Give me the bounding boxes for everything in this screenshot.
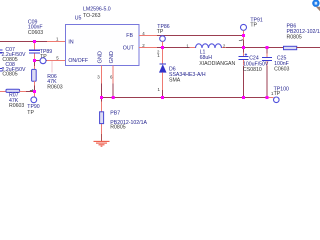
wire x34 ON/OFF to R06: [34, 61, 36, 70]
node dot OUT/TP91/C24: [242, 46, 245, 49]
wire left bottom net: [0, 91, 6, 93]
pin 5 ON/OFF stub: [47, 60, 66, 62]
svg-text:1: 1: [158, 87, 161, 92]
svg-text:TP: TP: [250, 22, 257, 28]
svg-text:R0805: R0805: [110, 124, 125, 130]
ferrite bead PB6: [284, 46, 297, 49]
capacitor C25 wires: [266, 48, 268, 98]
svg-text:GND: GND: [98, 51, 104, 63]
svg-text:OUT: OUT: [123, 46, 135, 52]
svg-text:R0603: R0603: [9, 103, 24, 109]
test point TP90 circle: [31, 97, 37, 103]
svg-text:TP: TP: [40, 54, 47, 60]
node dot bus/C24: [242, 96, 245, 99]
pin 2 OUT stub: [139, 47, 157, 49]
capacitor C24 wires: [243, 48, 245, 98]
svg-text:1: 1: [56, 37, 59, 42]
test point TP91 pin: [243, 30, 245, 47]
svg-text:C0805: C0805: [2, 72, 17, 78]
ferrite bead PB7 pins: [101, 98, 103, 142]
diode D6 symbol: [159, 64, 166, 72]
pin 1 IN stub: [47, 41, 66, 43]
svg-text:GND: GND: [109, 51, 115, 63]
svg-text:6: 6: [110, 74, 113, 79]
test point TP89 circle: [40, 58, 46, 64]
pin 4 FB stub: [139, 35, 157, 37]
capacitor C24 plus sign: [245, 53, 247, 55]
diode D6 pin 2: [162, 48, 164, 64]
svg-text:PB7: PB7: [110, 111, 120, 117]
test point TP91 circle: [241, 24, 247, 30]
ground symbol: [94, 141, 110, 146]
ferrite bead PB7 body: [100, 112, 104, 124]
test point TP86 circle: [160, 36, 166, 42]
node junction dot ON/OFF: [33, 59, 36, 62]
resistor R06: [32, 69, 37, 81]
IC GND pin 3: [101, 66, 103, 98]
svg-text:TP: TP: [274, 91, 281, 97]
svg-text:C0603: C0603: [28, 30, 43, 36]
svg-text:U5: U5: [75, 15, 82, 21]
svg-text:IN: IN: [68, 40, 73, 46]
svg-text:R0603: R0603: [47, 84, 62, 90]
capacitor C08 fragment: [0, 68, 2, 71]
test point TP90 stub: [34, 92, 36, 97]
wire PB6 to edge: [297, 47, 320, 49]
inductor L1 coil: [196, 44, 222, 48]
capacitor C24 plates: [239, 56, 249, 59]
svg-text:C0603: C0603: [274, 66, 289, 72]
test point TP86 stub: [162, 41, 164, 47]
wire input net: [0, 41, 47, 43]
svg-text:1: 1: [157, 53, 160, 58]
pin number 1 TP91 rotated: [239, 39, 243, 40]
capacitor C09 vertical wires: [34, 42, 36, 61]
wire R06 bottom: [34, 81, 36, 91]
node dot FB/TP91: [242, 34, 245, 37]
node dot bus/C25: [266, 96, 269, 99]
wire R07 to junction: [20, 91, 35, 93]
diode D6 pin 1: [162, 72, 164, 97]
svg-text:LM2596-5.0: LM2596-5.0: [83, 7, 111, 13]
test point TP100 circle: [274, 97, 280, 103]
node junction dot R06/R07/TP90: [33, 90, 36, 93]
wire OUT to L1: [157, 47, 284, 49]
svg-text:R0805: R0805: [287, 34, 302, 40]
svg-text:3: 3: [97, 74, 100, 79]
wire FB net: [157, 35, 244, 37]
IC GND pin 6: [112, 66, 114, 98]
resistor R07: [6, 89, 20, 92]
capacitor C07 fragment: [0, 50, 2, 53]
op-amp U5 LM2596 body: [66, 25, 140, 66]
capacitor C09 plates: [29, 50, 40, 53]
wire ground bus: [102, 97, 268, 99]
svg-text:TP: TP: [157, 29, 164, 35]
svg-text:TO-263: TO-263: [83, 13, 101, 19]
wire ON/OFF net: [34, 60, 47, 62]
node dot bus/GND3: [100, 96, 103, 99]
pin number 1 TP90 rotated: [30, 89, 33, 90]
svg-text:SMA: SMA: [169, 77, 181, 83]
test point TP100 stub: [267, 97, 274, 99]
cursor badge icon: [312, 0, 320, 11]
svg-text:XIAODIANGAN: XIAODIANGAN: [199, 61, 235, 67]
node dot bus/D6: [161, 96, 164, 99]
svg-text:TP: TP: [27, 110, 34, 116]
svg-text:CS0810: CS0810: [243, 67, 262, 73]
svg-text:FB: FB: [126, 33, 133, 39]
node dot OUT/D6: [161, 46, 164, 49]
node junction dot input/C09: [33, 40, 36, 43]
node dot bus/GND6: [112, 96, 115, 99]
capacitor C25 plates: [262, 57, 272, 60]
node dot OUT/C25: [266, 46, 269, 49]
svg-text:5: 5: [56, 56, 59, 61]
faint unconnected pin mark: [51, 61, 53, 73]
svg-text:ON/OFF: ON/OFF: [68, 58, 88, 64]
